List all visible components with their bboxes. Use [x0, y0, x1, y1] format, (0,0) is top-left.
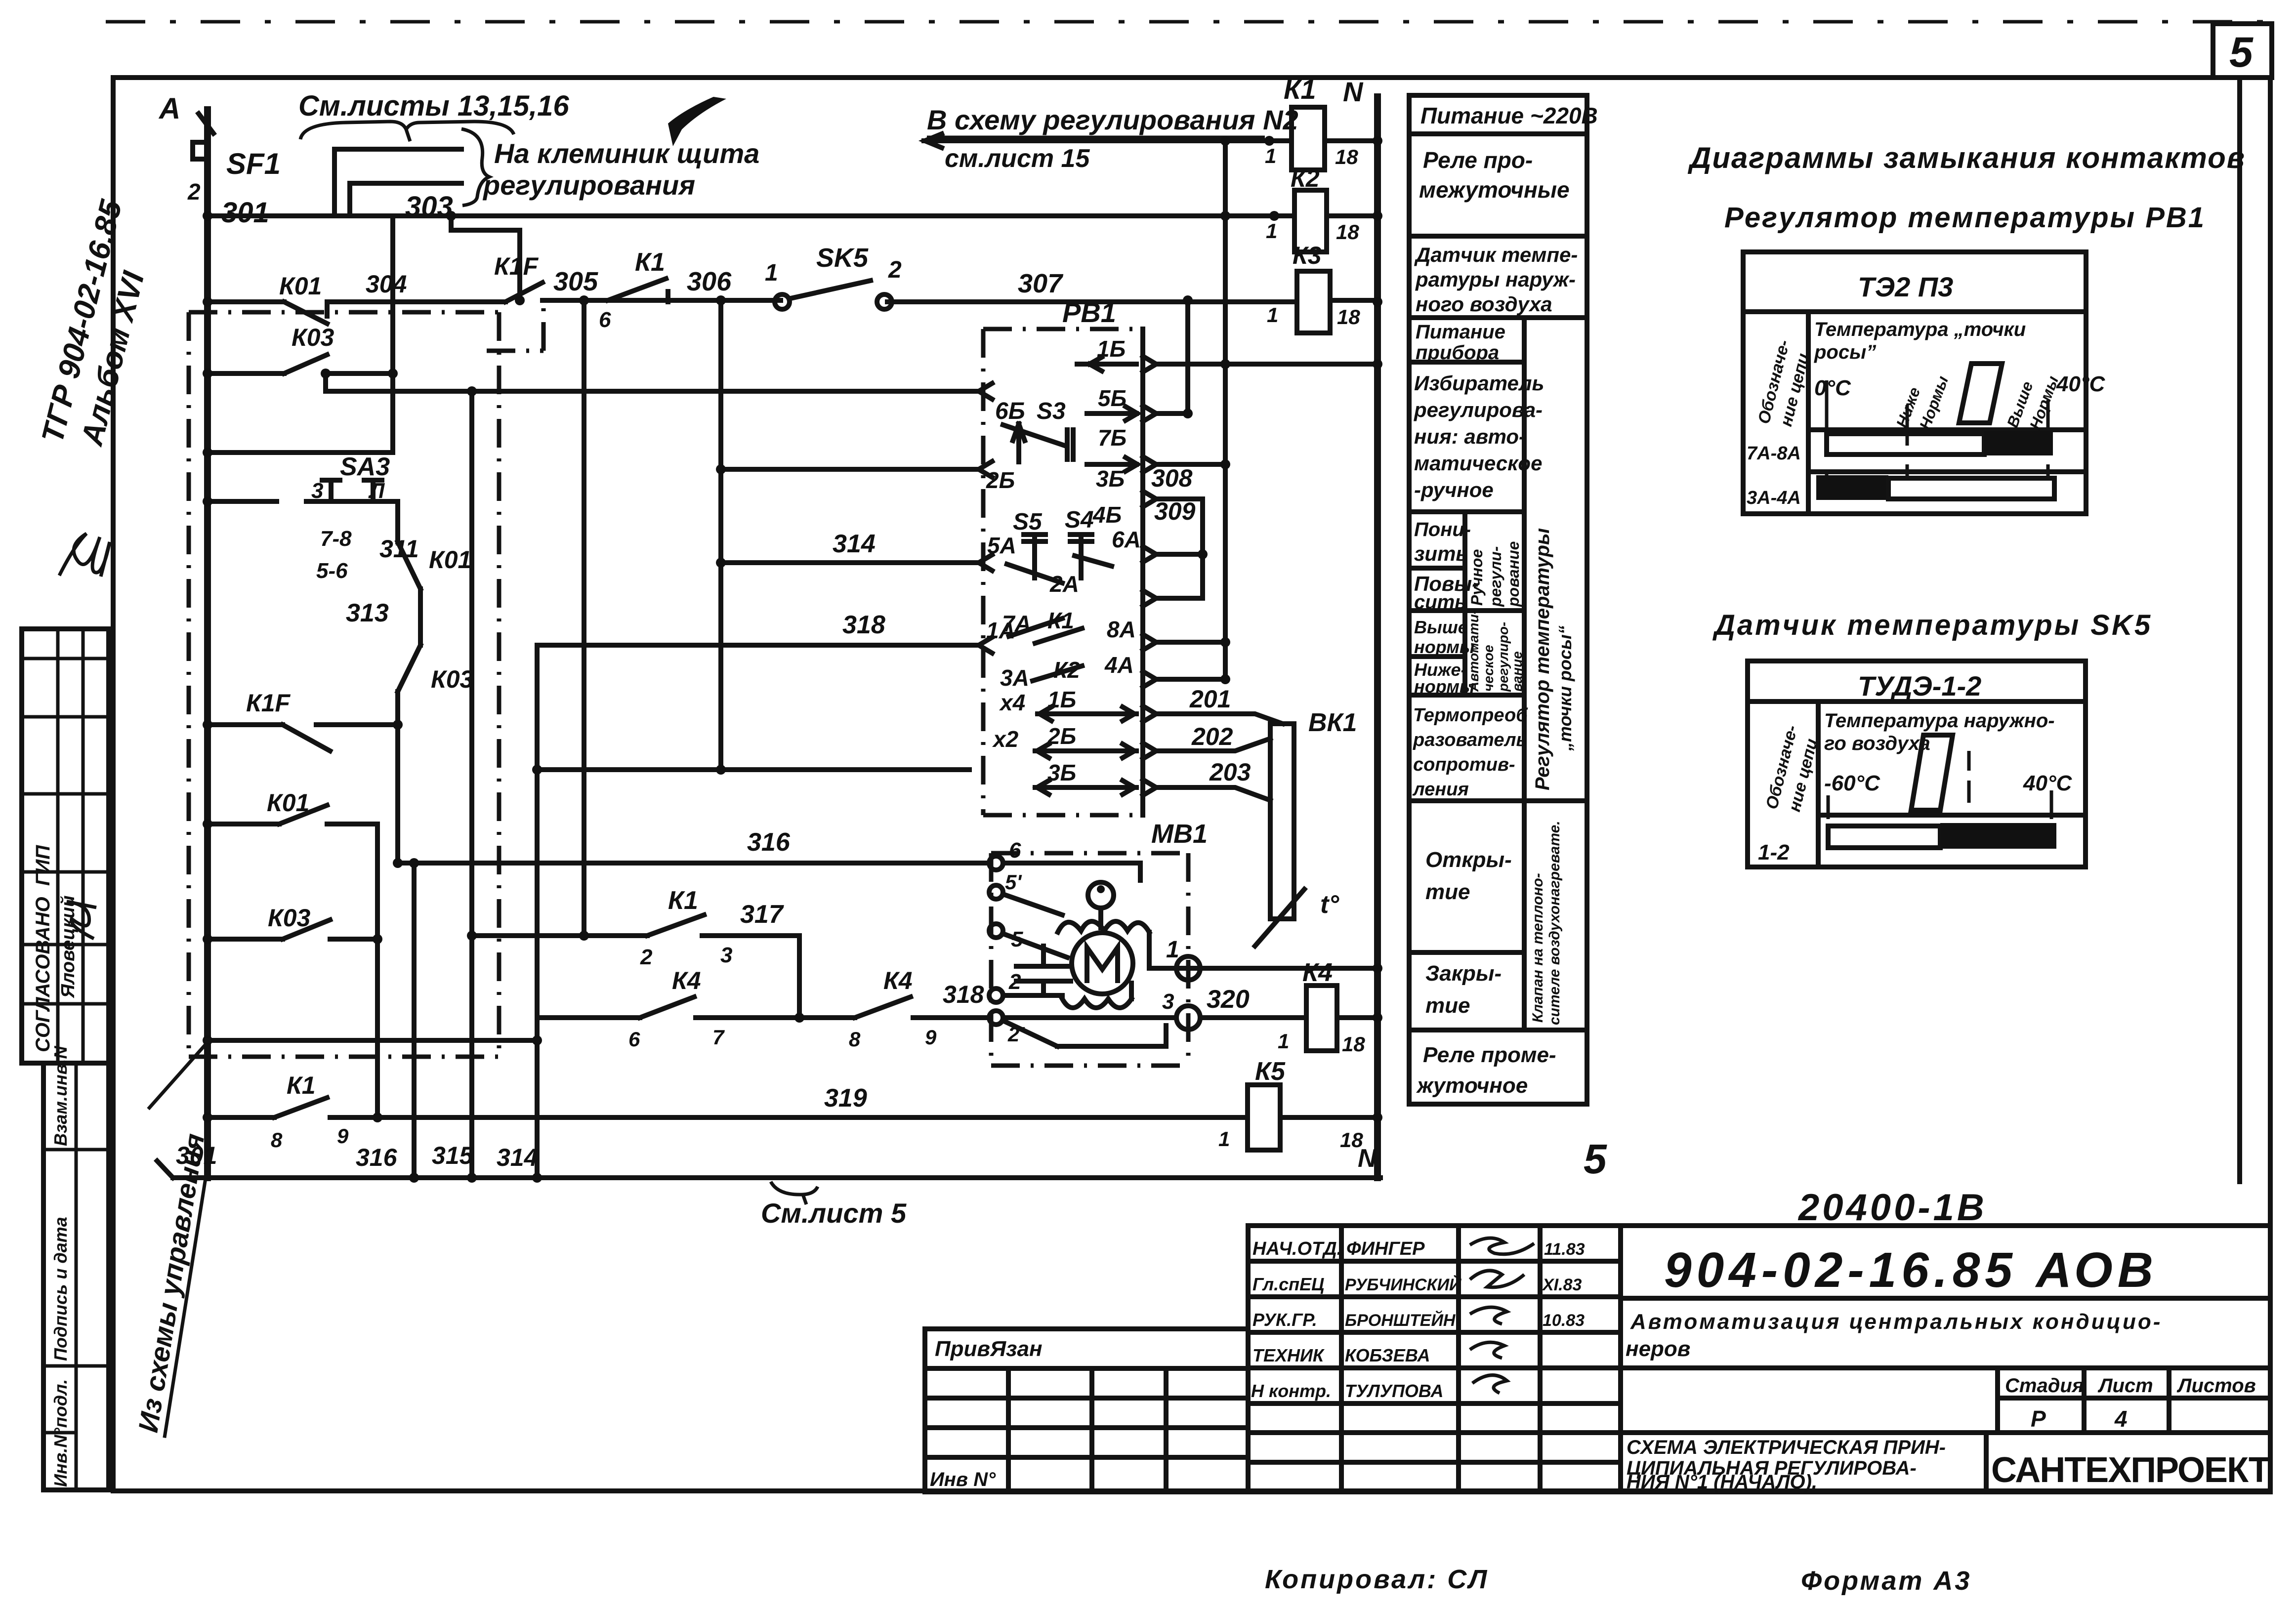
svg-text:N: N	[1343, 76, 1364, 107]
svg-text:7-8: 7-8	[320, 527, 352, 551]
svg-text:СОГЛАСОВАНО ГИП: СОГЛАСОВАНО ГИП	[32, 845, 54, 1052]
svg-text:К01: К01	[279, 272, 322, 300]
junction circle 3	[1176, 1006, 1200, 1030]
arrow 1B lower	[1038, 707, 1136, 721]
svg-text:Диаграммы замыкания контактов: Диаграммы замыкания контактов	[1687, 141, 2246, 174]
title block staff grid	[1248, 1226, 1621, 1492]
TE2P3 header parallelogram symbol	[1959, 364, 2002, 423]
arrow 2B lower	[1035, 744, 1136, 758]
rung K1F 1467	[208, 725, 398, 751]
svg-text:1: 1	[1267, 303, 1278, 327]
wire 202	[1156, 739, 1270, 751]
staff signatures squiggles	[1470, 1238, 1534, 1393]
svg-text:Формат А3: Формат А3	[1801, 1566, 1971, 1596]
svg-text:сопротив-: сопротив-	[1413, 754, 1515, 775]
stator winding top	[1058, 921, 1149, 968]
TE2P3 row1 white bar	[1827, 434, 1984, 454]
svg-text:межуточные: межуточные	[1419, 177, 1570, 203]
svg-text:зить: зить	[1414, 542, 1468, 565]
wire 7B to vertical	[1156, 462, 1225, 467]
wire 201	[1156, 714, 1283, 724]
svg-text:ТУДЭ-1-2: ТУДЭ-1-2	[1858, 670, 1981, 701]
rung K03 1901	[208, 920, 377, 939]
svg-text:N: N	[1358, 1144, 1377, 1173]
svg-text:8: 8	[849, 1028, 861, 1051]
svg-text:309: 309	[1154, 497, 1196, 525]
svg-text:В схему регулирования N2: В схему регулирования N2	[927, 104, 1298, 135]
svg-text:тие: тие	[1425, 880, 1470, 904]
svg-text:5Б: 5Б	[1098, 385, 1127, 411]
svg-text:сить: сить	[1414, 591, 1466, 613]
svg-text:Ручное: Ручное	[1468, 549, 1486, 606]
svg-text:Листов: Листов	[2176, 1375, 2256, 1397]
TUDE row white bar	[1828, 826, 1940, 848]
svg-text:1: 1	[1266, 219, 1277, 243]
svg-text:Р: Р	[2031, 1406, 2046, 1432]
stator winding bottom	[1062, 983, 1131, 1008]
svg-text:Питание: Питание	[1416, 321, 1505, 343]
TUDE header dash ticks	[1828, 751, 2051, 819]
svg-text:ратуры наруж-: ратуры наруж-	[1415, 268, 1576, 291]
svg-text:ПривЯзан: ПривЯзан	[935, 1337, 1043, 1361]
svg-text:САНТЕХПРОЕКТ: САНТЕХПРОЕКТ	[1991, 1450, 2270, 1490]
motor terminal 1 wire to N	[1149, 966, 1378, 971]
switch S5 T-bar	[1024, 535, 1045, 578]
svg-text:жуточное: жуточное	[1416, 1073, 1528, 1098]
svg-text:1: 1	[1218, 1127, 1230, 1151]
svg-text:6: 6	[1009, 838, 1021, 863]
TUDE header parallelogram symbol	[1911, 735, 1953, 810]
svg-text:Реле проме-: Реле проме-	[1423, 1043, 1556, 1067]
wire 1B to N	[1156, 362, 1378, 367]
breaker SF1	[193, 114, 213, 159]
collector wire 1558	[537, 767, 969, 772]
dashed panel boundary box	[189, 312, 499, 1057]
switch SK5 contact	[775, 281, 892, 309]
svg-text:319: 319	[824, 1084, 867, 1113]
svg-text:х2: х2	[992, 726, 1019, 752]
vertical 764	[375, 824, 380, 1117]
feeder vertical 955 and rung 317	[472, 391, 799, 1178]
svg-text:2: 2	[640, 945, 653, 969]
svg-text:См.лист 5: См.лист 5	[761, 1197, 907, 1229]
bottom N line	[157, 1161, 1380, 1178]
svg-text:Клапан на теплоно-: Клапан на теплоно-	[1530, 873, 1546, 1023]
svg-text:6Б: 6Б	[995, 398, 1025, 424]
svg-text:Инв.N°подл.: Инв.N°подл.	[50, 1379, 71, 1487]
svg-text:К5: К5	[1255, 1057, 1286, 1086]
svg-text:1: 1	[1265, 144, 1276, 167]
svg-text:Л: Л	[368, 479, 385, 503]
svg-text:К4: К4	[672, 967, 701, 994]
svg-text:Взам.инв.N: Взам.инв.N	[50, 1045, 71, 1146]
switch S3 internal diagonal	[1003, 425, 1073, 459]
wire 6B to RV1	[326, 373, 977, 391]
RV1 terminal strip right edge	[1140, 329, 1145, 815]
svg-text:См.листы 13,15,16: См.листы 13,15,16	[298, 90, 569, 122]
svg-text:тие: тие	[1425, 993, 1470, 1018]
wire from 2	[1003, 993, 1062, 998]
svg-text:306: 306	[687, 267, 732, 296]
terminal 2p circle	[989, 1011, 1003, 1025]
svg-text:РУК.ГР.: РУК.ГР.	[1252, 1310, 1317, 1330]
svg-text:SA3: SA3	[340, 453, 390, 481]
svg-text:ния: авто-: ния: авто-	[1414, 425, 1526, 448]
svg-text:х4: х4	[999, 690, 1025, 715]
title block divider under code	[1621, 1296, 2270, 1301]
terminal 5p circle	[989, 885, 1003, 899]
svg-text:Избиратель: Избиратель	[1414, 371, 1544, 395]
svg-text:вание: вание	[1509, 651, 1525, 692]
svg-text:Датчик темпе-: Датчик темпе-	[1414, 243, 1578, 266]
vertical 2480	[1223, 141, 1228, 679]
svg-text:8: 8	[271, 1128, 283, 1152]
wire 301 to terminal strip	[334, 149, 461, 216]
svg-text:К03: К03	[292, 324, 334, 351]
K2 coil right wire	[1327, 213, 1378, 218]
motor M	[1072, 933, 1133, 994]
svg-text:К4: К4	[883, 967, 913, 994]
svg-text:ного воздуха: ного воздуха	[1416, 292, 1552, 316]
left stamp lower table	[43, 1063, 109, 1490]
svg-text:t°: t°	[1320, 890, 1339, 919]
svg-text:40°С: 40°С	[2056, 372, 2106, 396]
svg-text:К2: К2	[1291, 165, 1320, 192]
svg-text:Инв N°: Инв N°	[930, 1469, 996, 1490]
svg-text:ТЭ2 П3: ТЭ2 П3	[1858, 271, 1953, 302]
right legend table frame	[1409, 95, 1587, 1104]
svg-text:МВ1: МВ1	[1151, 819, 1208, 849]
TE2P3 row2 black bar	[1816, 475, 1888, 500]
svg-text:матическое: матическое	[1414, 452, 1542, 475]
svg-text:5-6: 5-6	[316, 559, 348, 583]
svg-text:2Б: 2Б	[986, 467, 1015, 493]
svg-text:40°С: 40°С	[2023, 771, 2073, 795]
wire 4A	[1156, 677, 1225, 682]
relay coil K5	[1248, 1085, 1280, 1150]
svg-text:Пони-: Пони-	[1414, 519, 1471, 540]
note iz shemy upravleniya rotated	[132, 1043, 212, 1438]
wire 8A	[1156, 640, 1225, 645]
svg-text:8А: 8А	[1107, 617, 1136, 642]
tap from bus to rung 608	[451, 216, 520, 300]
svg-text:308: 308	[1151, 464, 1193, 492]
svg-text:ФИНГЕР: ФИНГЕР	[1346, 1238, 1425, 1259]
svg-text:го воздуха: го воздуха	[1824, 733, 1930, 754]
switch S4 T-bar	[1070, 535, 1092, 578]
svg-text:На клеминик щита: На клеминик щита	[494, 138, 759, 169]
svg-text:„точки росы“: „точки росы“	[1555, 625, 1575, 751]
svg-text:3: 3	[1162, 990, 1174, 1014]
bottom rung 2106 from bus	[208, 1038, 537, 1043]
privyazan box	[925, 1329, 1248, 1492]
svg-text:К1: К1	[635, 248, 665, 277]
arrow 3B lower	[1035, 781, 1136, 794]
terminal 5 circle	[989, 924, 1003, 938]
svg-text:Копировал: СЛ: Копировал: СЛ	[1265, 1565, 1489, 1594]
svg-text:3А: 3А	[1000, 665, 1029, 691]
svg-text:2А: 2А	[1049, 571, 1079, 597]
svg-text:Температура наружно-: Температура наружно-	[1824, 710, 2055, 732]
wire 303 to terminal strip	[350, 183, 461, 216]
svg-text:К1: К1	[668, 886, 698, 915]
curly bracket to panel terminal	[461, 129, 489, 206]
left stamp upper table	[22, 629, 109, 1063]
svg-text:307: 307	[1018, 269, 1064, 298]
svg-text:Откры-: Откры-	[1425, 848, 1512, 872]
svg-text:18: 18	[1342, 1032, 1365, 1056]
N bus vertical	[1374, 97, 1381, 1178]
svg-text:S5: S5	[1013, 509, 1043, 535]
rung SA3 1015	[208, 499, 398, 504]
relay coil K1	[1292, 107, 1325, 170]
svg-text:Температура „точки: Температура „точки	[1814, 319, 2026, 340]
svg-text:2: 2	[187, 179, 201, 205]
svg-text:317: 317	[740, 900, 784, 929]
svg-text:3: 3	[720, 943, 732, 967]
brace under bottom line	[771, 1182, 818, 1204]
svg-text:Датчик температуры SK5: Датчик температуры SK5	[1712, 609, 2152, 641]
svg-text:Питание ~220В: Питание ~220В	[1420, 103, 1598, 128]
top dash-dot boundary line	[106, 20, 2282, 24]
wire 316	[398, 861, 990, 866]
svg-text:БРОНШТЕЙН: БРОНШТЕЙН	[1345, 1311, 1456, 1330]
feeder vertical 1087 with wire 1A	[537, 645, 977, 1178]
capacitor	[1016, 946, 1071, 995]
fat arrow to bracket	[668, 97, 726, 146]
svg-text:202: 202	[1191, 723, 1233, 750]
svg-text:4Б: 4Б	[1092, 502, 1122, 528]
K1 coil right wire	[1325, 138, 1378, 143]
svg-text:1-2: 1-2	[1758, 840, 1790, 865]
svg-text:XI.83: XI.83	[1542, 1276, 1582, 1294]
svg-text:см.лист 15: см.лист 15	[945, 144, 1090, 173]
svg-text:315: 315	[432, 1142, 474, 1169]
svg-text:К1: К1	[287, 1072, 316, 1099]
svg-text:-60°С: -60°С	[1824, 771, 1880, 795]
svg-text:304: 304	[366, 270, 407, 298]
terminal 2 circle	[989, 989, 1003, 1002]
svg-text:ВК1: ВК1	[1308, 708, 1357, 737]
svg-text:316: 316	[747, 828, 791, 857]
junction dots left area	[203, 211, 726, 1122]
svg-text:регулиро-: регулиро-	[1496, 622, 1511, 692]
main top bus 303-K2	[208, 213, 1294, 218]
svg-text:СХЕМА ЭЛЕКТРИЧЕСКАЯ ПРИН-: СХЕМА ЭЛЕКТРИЧЕСКАЯ ПРИН-	[1627, 1437, 1946, 1458]
svg-text:регулирова-: регулирова-	[1414, 398, 1543, 421]
svg-text:305: 305	[553, 267, 598, 296]
svg-text:Нормы: Нормы	[1916, 373, 1952, 432]
junction circle 1	[1176, 956, 1200, 980]
page number box top-right	[2213, 24, 2272, 78]
switch SA3 poles	[322, 480, 382, 501]
svg-text:Выше: Выше	[1414, 617, 1468, 637]
wire to schema 2 with arrow	[924, 134, 1292, 148]
svg-text:К03: К03	[268, 904, 311, 932]
blade K1 internal	[1035, 628, 1082, 643]
svg-text:К1: К1	[1284, 74, 1316, 105]
svg-text:18: 18	[1337, 305, 1360, 329]
svg-text:6: 6	[628, 1028, 640, 1051]
svg-text:КОБЗЕВА: КОБЗЕВА	[1345, 1345, 1430, 1365]
svg-text:Автомати-: Автомати-	[1466, 610, 1481, 692]
svg-text:9: 9	[925, 1026, 937, 1049]
relay coil K3	[1297, 271, 1330, 333]
rung KO3 756	[208, 355, 393, 373]
svg-text:Регулятор температуры РВ1: Регулятор температуры РВ1	[1724, 202, 2206, 234]
wire 203	[1156, 787, 1270, 800]
internal wire from 6	[1003, 863, 1140, 880]
svg-text:неров: неров	[1626, 1337, 1690, 1361]
thermistor BK1	[1255, 724, 1304, 946]
svg-text:18: 18	[1336, 220, 1359, 244]
svg-text:разователь: разователь	[1413, 730, 1527, 750]
svg-text:росы”: росы”	[1814, 341, 1876, 363]
svg-text:К3: К3	[1293, 242, 1322, 269]
svg-text:6А: 6А	[1112, 527, 1141, 552]
vertical 1182	[582, 300, 586, 936]
blade 1A-2A cross	[1009, 618, 1062, 636]
rung 2060 with K4 contacts	[537, 997, 1378, 1018]
arrow 1B internal	[1077, 357, 1136, 371]
svg-text:18: 18	[1335, 145, 1358, 168]
svg-text:318: 318	[943, 981, 984, 1008]
svg-text:3: 3	[311, 479, 323, 503]
relay coil K4	[1306, 986, 1337, 1051]
svg-text:К1F: К1F	[494, 252, 539, 280]
svg-text:К03: К03	[431, 665, 474, 693]
wire 5B riser	[1156, 300, 1188, 413]
svg-text:Закры-: Закры-	[1425, 961, 1502, 986]
vertical 795 joining rungs	[390, 216, 395, 453]
svg-text:К01: К01	[267, 789, 309, 817]
svg-text:0°С: 0°С	[1814, 376, 1851, 400]
svg-text:рование: рование	[1504, 541, 1522, 607]
blade from 5p	[1003, 894, 1062, 915]
svg-text:SF1: SF1	[226, 147, 281, 180]
svg-text:314: 314	[497, 1144, 538, 1171]
feeder vertical 838	[412, 863, 417, 1178]
svg-text:Термопреоб: Термопреоб	[1413, 705, 1528, 726]
arrow 7B internal	[1087, 457, 1137, 471]
svg-text:К01: К01	[429, 546, 471, 574]
svg-text:К4: К4	[1302, 958, 1333, 987]
terminal 6 circle	[989, 856, 1003, 870]
svg-text:4А: 4А	[1104, 652, 1134, 678]
wire 2B	[721, 467, 977, 472]
bus 916	[208, 450, 393, 455]
svg-text:S3: S3	[1037, 398, 1066, 424]
wire 309 group	[1156, 499, 1203, 598]
svg-text:К1F: К1F	[246, 689, 291, 717]
svg-text:3Б: 3Б	[1096, 466, 1125, 492]
svg-text:Н контр.: Н контр.	[1251, 1381, 1331, 1401]
motor box MV1 dashed	[991, 853, 1188, 1066]
TUDE row black bar	[1940, 823, 2056, 849]
rung 2262 wire 319	[208, 1098, 1378, 1117]
arrow 5B internal	[1087, 407, 1137, 420]
svg-text:10.83: 10.83	[1543, 1311, 1585, 1330]
svg-text:НАЧ.ОТД.: НАЧ.ОТД.	[1252, 1238, 1342, 1259]
svg-text:ТУЛУПОВА: ТУЛУПОВА	[1345, 1381, 1444, 1401]
svg-text:SK5: SK5	[816, 243, 869, 273]
svg-text:5А: 5А	[987, 533, 1016, 558]
svg-text:3А-4А: 3А-4А	[1747, 488, 1801, 508]
svg-text:203: 203	[1209, 758, 1251, 786]
svg-text:9: 9	[337, 1124, 349, 1148]
signature squiggle left margin	[59, 534, 110, 577]
TUDE-1-2 diagram table frame	[1748, 661, 2086, 867]
svg-text:2: 2	[888, 257, 902, 283]
svg-text:313: 313	[346, 599, 389, 627]
svg-text:1: 1	[1278, 1030, 1289, 1053]
vertical 805 to wire316	[395, 725, 400, 863]
svg-text:201: 201	[1189, 685, 1231, 713]
blade K2 internal	[1033, 666, 1082, 681]
svg-text:5: 5	[2229, 29, 2254, 76]
svg-text:Стадия: Стадия	[2005, 1375, 2084, 1397]
svg-text:904-02-16.85 АОВ: 904-02-16.85 АОВ	[1664, 1242, 2158, 1298]
TE2P3 row2 white bar	[1888, 478, 2054, 499]
frame inner right vertical	[2237, 78, 2242, 1182]
TE2P3 row1 black bar	[1984, 431, 2053, 455]
junction dots right area	[207, 136, 1382, 1183]
svg-text:314: 314	[833, 530, 876, 558]
brace under note	[300, 122, 514, 141]
svg-text:Реле про-: Реле про-	[1423, 147, 1533, 173]
svg-text:-ручное: -ручное	[1414, 478, 1494, 501]
rung K01 1668	[208, 805, 377, 824]
svg-text:Лист: Лист	[2097, 1375, 2153, 1397]
svg-text:регули-: регули-	[1487, 546, 1504, 607]
contact K1 on rung608	[608, 279, 668, 302]
svg-text:318: 318	[842, 611, 885, 639]
RV1 left terminals arrowheads	[979, 383, 992, 653]
svg-text:5': 5'	[1005, 870, 1022, 894]
svg-text:ления: ления	[1412, 779, 1469, 800]
svg-text:НИЯ N°1 (НАЧАЛО).: НИЯ N°1 (НАЧАЛО).	[1627, 1471, 1817, 1493]
svg-text:7А-8А: 7А-8А	[1747, 443, 1801, 464]
title block right grid stadiya list listov	[1621, 1368, 2270, 1492]
svg-text:5: 5	[1584, 1136, 1607, 1182]
underline for note	[927, 136, 1265, 139]
svg-text:сителе воздухонагревате.: сителе воздухонагревате.	[1546, 821, 1563, 1025]
svg-text:320: 320	[1207, 985, 1250, 1014]
svg-text:Регулятор температуры: Регулятор температуры	[1532, 528, 1553, 790]
lamp indicator	[1088, 882, 1114, 928]
svg-text:А: А	[158, 92, 180, 125]
svg-text:ческое: ческое	[1481, 645, 1496, 692]
svg-text:РВ1: РВ1	[1062, 297, 1116, 328]
svg-text:20400-1В: 20400-1В	[1797, 1187, 1987, 1229]
K1F mechanical dash link	[487, 304, 543, 351]
svg-text:Автоматизация центральных кон: Автоматизация центральных кондицио-	[1630, 1310, 2162, 1334]
blade from 2p internal	[1003, 1021, 1166, 1046]
svg-text:регулирования: регулирования	[482, 169, 695, 201]
svg-text:316: 316	[356, 1144, 398, 1171]
svg-text:прибора: прибора	[1416, 342, 1499, 364]
chain KO1 313 KO3 vertical	[398, 501, 420, 725]
TE2P3 diagram table frame	[1743, 252, 2086, 514]
stamp signature squiggle	[67, 902, 96, 939]
up arrow internal	[1013, 424, 1025, 462]
svg-text:РУБЧИНСКИЙ: РУБЧИНСКИЙ	[1345, 1275, 1462, 1294]
svg-text:7Б: 7Б	[1098, 425, 1127, 451]
blade 5A-6A cross	[1007, 556, 1112, 583]
regulator RV1 dashed box	[983, 329, 1143, 815]
svg-text:7А: 7А	[1002, 611, 1031, 636]
svg-text:К1: К1	[1047, 608, 1074, 633]
